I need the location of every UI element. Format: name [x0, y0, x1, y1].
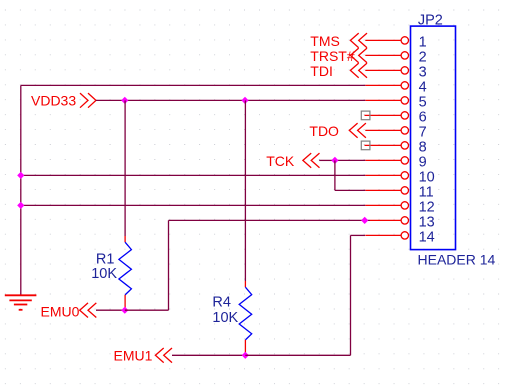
port EMU0 — [41, 303, 97, 319]
wire TCK port to junction — [319, 159, 335, 161]
wire VDD33 down to R1 — [124, 100, 126, 236]
svg-text:2: 2 — [419, 49, 427, 65]
port TDI — [310, 63, 367, 79]
port TCK — [266, 153, 319, 169]
wire GND to pin 12 — [21, 204, 366, 206]
svg-text:14: 14 — [419, 229, 435, 245]
wire VDD33 to pin 5 — [96, 99, 365, 101]
pin 12 of JP2 — [365, 199, 434, 215]
svg-text:10K: 10K — [91, 266, 117, 282]
svg-text:TRST#: TRST# — [310, 48, 355, 64]
pin 4 of JP2 — [365, 79, 426, 95]
wire EMU1 R4 to corner — [245, 354, 350, 356]
wire TCK vertical to pin 11 row — [334, 160, 336, 190]
pin 3 of JP2 — [365, 64, 426, 80]
pin 14 of JP2 — [365, 229, 434, 245]
wire EMU0 R1 to corner — [125, 309, 169, 311]
pin 8 of JP2 — [365, 139, 427, 155]
pin 13 of JP2 — [370, 214, 435, 230]
resistor R1 — [119, 236, 131, 310]
svg-text:EMU1: EMU1 — [114, 347, 153, 363]
port TDO — [309, 123, 366, 139]
wire EMU1 vertical — [350, 235, 352, 355]
svg-text:7: 7 — [419, 124, 427, 140]
junction EMU0 R1 — [121, 307, 128, 314]
wire VDD33 down to R4 — [244, 100, 246, 281]
port TMS — [310, 33, 367, 49]
pin 6 of JP2 — [365, 109, 427, 125]
wire GND to pin 10 — [21, 174, 366, 176]
svg-text:TDO: TDO — [309, 123, 339, 139]
wire EMU0 vertical — [168, 220, 170, 310]
svg-text:EMU0: EMU0 — [41, 303, 80, 319]
pin 11 of JP2 — [365, 184, 433, 200]
svg-text:TDI: TDI — [310, 63, 333, 79]
svg-text:R4: R4 — [212, 295, 231, 311]
svg-text:10K: 10K — [212, 310, 238, 326]
pin 2 of JP2 — [365, 49, 426, 65]
svg-text:R1: R1 — [96, 251, 115, 267]
no-connect symbol pin 8 — [361, 141, 370, 150]
svg-text:TCK: TCK — [266, 153, 295, 169]
wire EMU0 to pin 13 — [169, 219, 371, 221]
svg-text:JP2: JP2 — [418, 13, 443, 29]
svg-text:HEADER 14: HEADER 14 — [418, 252, 496, 268]
pin 7 of JP2 — [365, 124, 426, 140]
svg-text:6: 6 — [419, 109, 427, 125]
svg-text:VDD33: VDD33 — [31, 93, 76, 109]
svg-text:10: 10 — [419, 169, 435, 185]
svg-text:4: 4 — [419, 79, 427, 95]
port VDD33 — [31, 93, 96, 109]
wire EMU0 port to R1 — [96, 309, 125, 311]
svg-text:9: 9 — [419, 154, 427, 170]
junction EMU0 pin 13 — [361, 217, 368, 224]
pin 5 of JP2 — [365, 94, 426, 110]
svg-text:TMS: TMS — [310, 33, 340, 49]
svg-text:12: 12 — [419, 199, 435, 215]
port EMU1 — [114, 347, 173, 363]
junction GND pin10 branch — [17, 172, 24, 179]
svg-text:5: 5 — [419, 94, 427, 110]
ground symbol — [5, 295, 37, 310]
svg-text:8: 8 — [419, 139, 427, 155]
junction VDD33 R4 — [241, 97, 248, 104]
pin 9 of JP2 — [365, 154, 426, 170]
junction GND pin12 branch — [17, 202, 24, 209]
port TRST# — [310, 48, 367, 64]
wire TCK to pin 11 — [335, 189, 365, 191]
svg-text:3: 3 — [419, 64, 427, 80]
wire GND to pin 4 — [21, 84, 366, 86]
pin 1 of JP2 — [365, 34, 426, 50]
wire GND vertical — [20, 85, 22, 295]
junction EMU1 R4 — [242, 352, 249, 359]
wire EMU1 to pin 14 — [351, 234, 366, 236]
svg-text:1: 1 — [419, 34, 427, 50]
wire EMU1 port to R4 — [172, 354, 245, 356]
pin 10 of JP2 — [365, 169, 434, 185]
svg-text:13: 13 — [419, 214, 435, 230]
resistor R4 — [239, 281, 252, 355]
no-connect symbol pin 6 — [361, 111, 370, 120]
connector JP2 body — [411, 26, 456, 250]
wire TCK junction to pin 9 — [335, 159, 365, 161]
junction VDD33 R1 — [121, 97, 128, 104]
junction TCK — [331, 157, 338, 164]
svg-text:11: 11 — [419, 184, 434, 200]
